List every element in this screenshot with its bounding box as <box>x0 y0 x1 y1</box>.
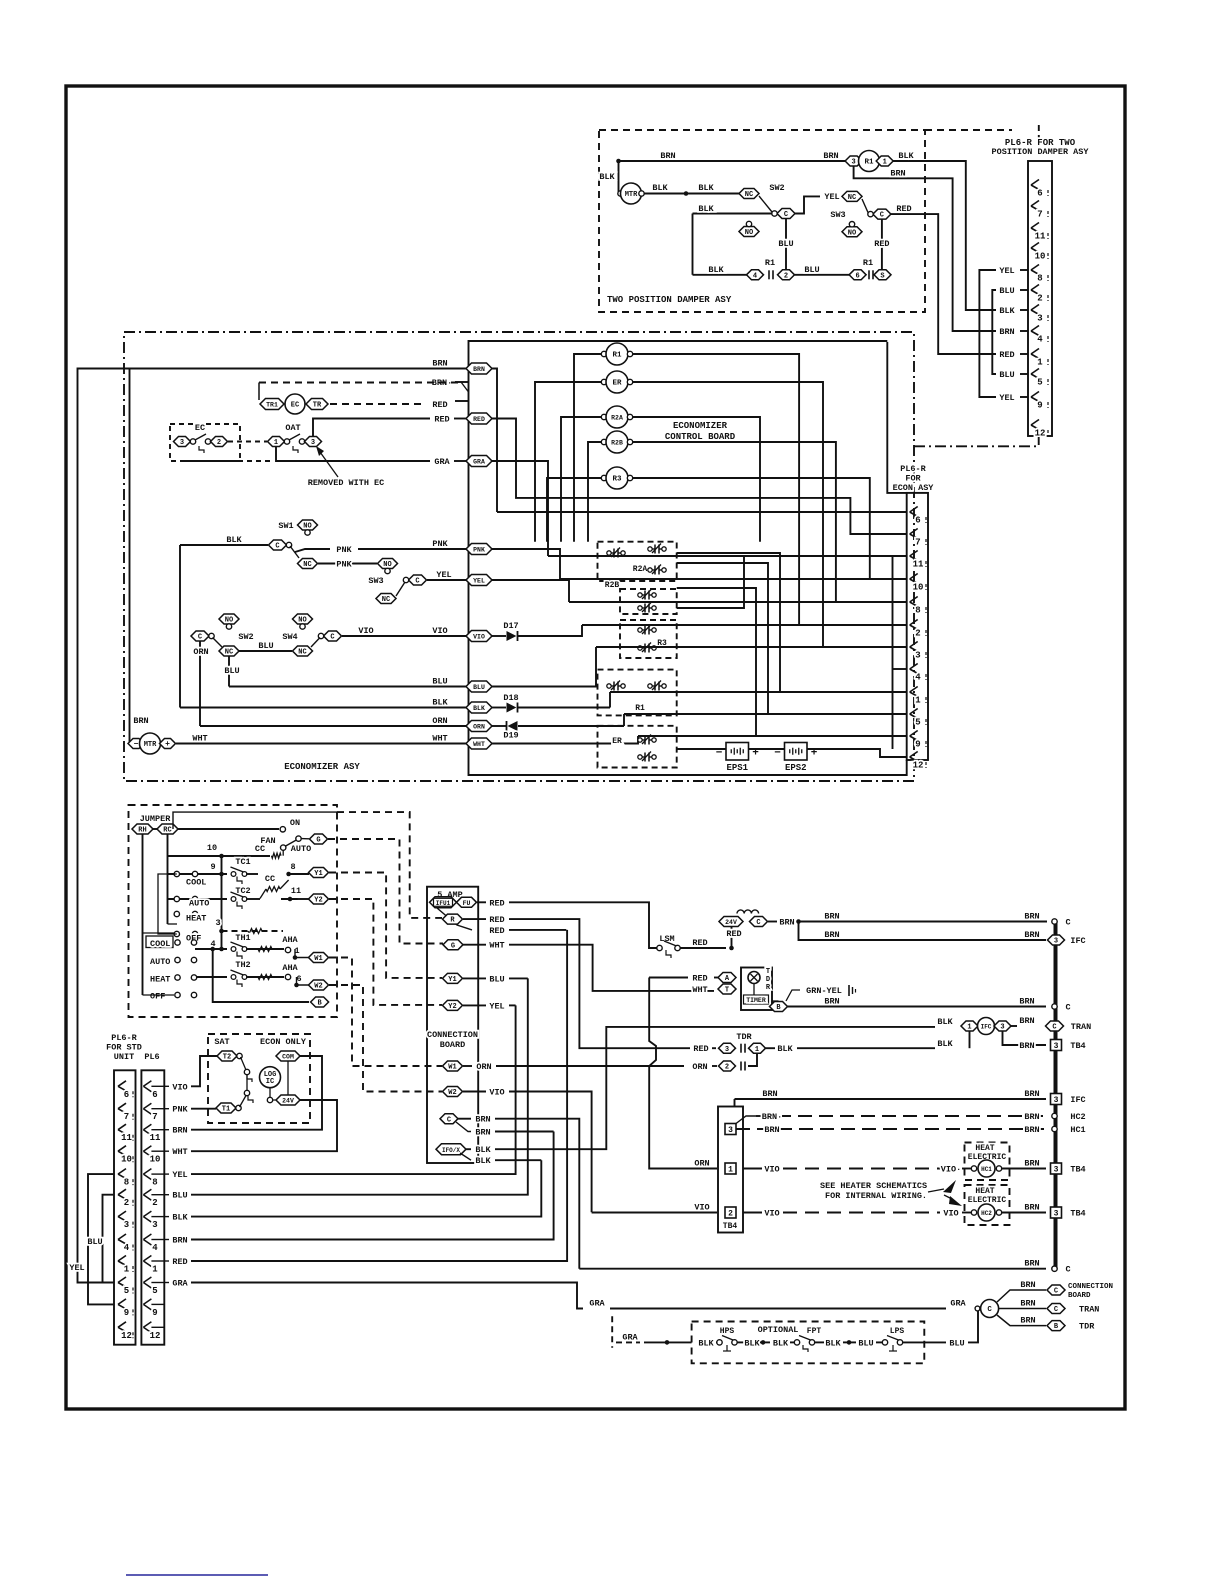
wire PNK SW1 to board <box>295 549 330 552</box>
wire YEL Y2 row <box>463 1004 486 1006</box>
wire RC to fan switch <box>178 828 279 830</box>
svg-text:+: + <box>165 740 170 749</box>
wire SW2 C to YEL <box>795 196 820 213</box>
svg-text:BLU: BLU <box>87 1237 102 1247</box>
svg-text:CONNECTION: CONNECTION <box>1068 1283 1113 1291</box>
svg-text:T1: T1 <box>222 1106 230 1114</box>
wire YEL loop damper pins 8-9 <box>979 270 996 397</box>
terminal VIO board edge <box>466 631 492 642</box>
svg-text:PNK: PNK <box>172 1105 188 1115</box>
terminal R connection board <box>443 914 463 925</box>
terminal ORN board edge <box>466 721 492 732</box>
svg-text:AUTO: AUTO <box>189 899 209 909</box>
svg-text:RED: RED <box>726 929 741 939</box>
svg-text:C: C <box>1052 1024 1056 1032</box>
node RED junction <box>729 946 734 951</box>
svg-text:12: 12 <box>1035 429 1046 439</box>
wire BRN TB4 from IFC3 <box>1003 1031 1047 1045</box>
svg-text:FOR: FOR <box>905 474 921 484</box>
svg-text:2: 2 <box>217 439 221 447</box>
wire BLK R1 to pin3 <box>893 161 996 310</box>
connector C circle <box>981 1300 999 1318</box>
wire B hex to node4 <box>213 949 309 1002</box>
terminal C bottom <box>1052 1266 1057 1271</box>
svg-text:8: 8 <box>915 606 920 616</box>
svg-text:CONNECTION: CONNECTION <box>427 1030 478 1040</box>
svg-text:IFC: IFC <box>981 1024 992 1031</box>
svg-text:REMOVED WITH EC: REMOVED WITH EC <box>308 478 385 488</box>
wire dashed W1 trunk <box>329 958 442 1067</box>
svg-text:NC: NC <box>303 561 311 569</box>
wire dash tick above connector <box>1038 125 1040 143</box>
svg-text:D17: D17 <box>503 621 518 631</box>
svg-text:Y2: Y2 <box>314 897 322 905</box>
terminal T1 <box>216 1103 236 1114</box>
wire ER coil left <box>535 382 601 542</box>
svg-text:NC: NC <box>298 649 306 657</box>
wire BRN B to C <box>788 1006 1047 1008</box>
wire R3 coil to right <box>633 478 870 579</box>
svg-text:C: C <box>987 1306 992 1314</box>
relay coil R2B <box>601 439 606 444</box>
pin 7 econ connector <box>910 529 918 539</box>
wire ORN W1 row to contact <box>463 1065 472 1067</box>
switch SW3 damper <box>842 191 862 202</box>
pin 5 PL6-R std <box>118 1277 126 1287</box>
svg-text:BLK: BLK <box>698 183 714 193</box>
wire BRN to connection board hex <box>997 1290 1046 1302</box>
fuse IFU1 <box>430 897 457 908</box>
wire board BLU to pin3 feeder <box>492 647 596 687</box>
wire feeder to econ pin row y736 <box>638 735 907 737</box>
svg-text:C: C <box>1054 1306 1058 1314</box>
pin 9 PL6 <box>143 1299 151 1310</box>
wire feeder to econ pin row y602 <box>569 601 907 603</box>
svg-text:BLK: BLK <box>825 1338 841 1348</box>
svg-text:T2: T2 <box>223 1054 231 1062</box>
svg-text:VIO: VIO <box>694 1203 709 1213</box>
wire fan arm <box>285 840 297 847</box>
svg-text:24V: 24V <box>725 919 737 926</box>
svg-text:10: 10 <box>913 583 924 593</box>
svg-text:IFU1: IFU1 <box>436 900 451 907</box>
pin 11 econ connector <box>910 551 918 561</box>
svg-text:D: D <box>766 976 770 984</box>
terminal FU <box>457 897 477 907</box>
node 11 <box>288 897 293 902</box>
svg-text:BLK: BLK <box>999 306 1015 316</box>
svg-text:C: C <box>1065 1003 1070 1013</box>
terminal HC2 <box>1052 1113 1057 1118</box>
svg-text:BRN: BRN <box>1020 1316 1035 1326</box>
svg-text:2: 2 <box>1037 294 1042 304</box>
svg-text:VIO: VIO <box>172 1082 187 1092</box>
svg-text:RED: RED <box>693 1044 708 1054</box>
svg-text:BLK: BLK <box>475 1156 491 1166</box>
svg-text:Y2: Y2 <box>448 1003 456 1011</box>
svg-text:NC: NC <box>382 596 390 604</box>
wire feeder pin4 stub <box>892 556 894 749</box>
svg-text:VIO: VIO <box>473 634 485 641</box>
terminal GRA board edge <box>466 456 492 467</box>
svg-text:VIO: VIO <box>358 626 373 636</box>
svg-text:10: 10 <box>150 1155 161 1165</box>
svg-text:6: 6 <box>915 516 920 526</box>
svg-text:C: C <box>1065 1265 1070 1275</box>
wire dashed TR to RED <box>330 403 425 405</box>
svg-text:BRN: BRN <box>762 1089 777 1099</box>
timer TDR <box>714 977 720 979</box>
wire stub pin 3 <box>1020 309 1028 311</box>
wire ORN SW2 down <box>199 641 201 726</box>
pin 5 PL6 <box>143 1277 151 1288</box>
wire R2A coil right <box>633 417 760 542</box>
svg-text:SW1: SW1 <box>278 521 293 531</box>
svg-text:PNK: PNK <box>336 545 352 555</box>
wire board BRN to pin6 feeder <box>492 369 497 513</box>
svg-text:1: 1 <box>915 696 921 706</box>
svg-text:SW4: SW4 <box>282 632 297 642</box>
svg-text:C: C <box>784 211 788 219</box>
svg-text:R3: R3 <box>612 476 622 484</box>
svg-text:TWO POSITION DAMPER ASY: TWO POSITION DAMPER ASY <box>607 295 732 305</box>
svg-text:BRN: BRN <box>1020 1280 1035 1290</box>
svg-text:ECONOMIZER: ECONOMIZER <box>673 421 728 431</box>
pin 3 econ connector <box>910 642 918 652</box>
wire board PNK to pin10 feeder <box>492 549 560 579</box>
pin 7 damper connector <box>1031 201 1039 211</box>
pin 12 econ connector <box>910 752 918 762</box>
connection board outline <box>427 887 478 1163</box>
pin 8 econ connector <box>910 597 918 607</box>
svg-text:BRN: BRN <box>1024 912 1039 922</box>
wire SW2 arm <box>759 196 772 212</box>
svg-text:BLU: BLU <box>473 684 485 691</box>
wire BLU up to C circle <box>968 1311 978 1342</box>
svg-text:12: 12 <box>121 1331 132 1341</box>
pin 9 damper connector <box>1031 392 1039 402</box>
svg-text:WHT: WHT <box>172 1147 187 1157</box>
wire feeder to econ pin row y579 <box>560 578 907 580</box>
wire VIO SW4 to board <box>342 635 466 637</box>
svg-text:BRN: BRN <box>1024 930 1039 940</box>
pin 1 damper connector <box>1031 349 1039 359</box>
svg-text:AUTO: AUTO <box>150 957 170 967</box>
svg-text:BRN: BRN <box>1024 1203 1039 1213</box>
pin 6 econ connector <box>910 507 918 517</box>
wire BRN HC1 dashed row <box>736 1128 1046 1130</box>
wire board top to connector <box>887 342 906 493</box>
wire R1 coil left <box>574 354 601 542</box>
svg-text:TR: TR <box>313 402 322 410</box>
svg-text:RED: RED <box>999 350 1014 360</box>
svg-text:R1: R1 <box>635 704 645 713</box>
terminal RED board edge <box>466 413 492 424</box>
svg-text:6: 6 <box>1037 189 1042 199</box>
wire BLK IFO row1 <box>466 1148 471 1150</box>
svg-text:BRN: BRN <box>1024 1125 1039 1135</box>
svg-text:NC: NC <box>745 191 753 199</box>
svg-text:RC: RC <box>163 827 171 835</box>
svg-text:6: 6 <box>855 272 859 280</box>
svg-text:9: 9 <box>124 1308 129 1318</box>
svg-text:PNK: PNK <box>432 539 448 549</box>
svg-text:BRN: BRN <box>1019 997 1034 1007</box>
sat econ only enclosure <box>208 1034 310 1123</box>
terminal W1 thermostat <box>309 953 329 964</box>
pin 4 econ connector <box>910 664 918 674</box>
svg-text:TH1: TH1 <box>235 933 250 943</box>
terminal G connection board <box>443 940 463 951</box>
svg-text:RED: RED <box>434 415 449 425</box>
wire RED stub <box>455 400 469 402</box>
svg-text:11: 11 <box>150 1133 161 1143</box>
svg-text:PL6-R: PL6-R <box>111 1033 137 1043</box>
svg-text:COM: COM <box>282 1054 294 1061</box>
svg-text:3: 3 <box>915 651 920 661</box>
svg-text:TDR: TDR <box>736 1032 752 1042</box>
terminal C connection board <box>440 1114 458 1125</box>
svg-text:BLK: BLK <box>652 183 668 193</box>
wire ORN VIO HC1 row <box>743 1168 762 1170</box>
wire bus row 10 <box>168 855 271 857</box>
node 6 <box>294 983 299 988</box>
svg-text:BRN: BRN <box>1019 1041 1034 1051</box>
wire COM to LOG <box>287 1061 289 1095</box>
wire BRN to TDR hex <box>997 1315 1046 1326</box>
svg-text:1: 1 <box>124 1265 130 1275</box>
svg-text:BRN: BRN <box>172 1126 187 1136</box>
svg-text:YEL: YEL <box>473 578 485 585</box>
terminal Y1 connection board <box>443 973 463 984</box>
terminal RH <box>132 824 153 835</box>
svg-text:G: G <box>451 942 455 950</box>
terminal 24V sat <box>276 1095 300 1105</box>
pin 10 econ connector <box>910 574 918 584</box>
svg-text:HC2: HC2 <box>1070 1112 1085 1122</box>
svg-text:11: 11 <box>913 560 924 570</box>
relay contacts R1 box <box>598 670 677 716</box>
svg-text:IFC: IFC <box>1070 936 1085 946</box>
wire ORN row to board <box>200 725 468 727</box>
node 3 row anticipator <box>219 929 224 934</box>
wire dashed TR box top <box>259 382 462 384</box>
pin 6 PL6-R std <box>118 1081 126 1091</box>
terminal WHT board edge <box>466 738 492 749</box>
wire contact box to pin1 <box>677 553 780 692</box>
svg-text:BRN: BRN <box>1020 1299 1035 1309</box>
svg-text:4: 4 <box>124 1243 130 1253</box>
thermostat jumper enclosure <box>129 805 338 1017</box>
wire MTR to NC <box>644 193 739 195</box>
svg-text:VIO: VIO <box>432 626 447 636</box>
svg-text:BLU: BLU <box>999 370 1014 380</box>
svg-text:R1: R1 <box>612 352 622 360</box>
svg-text:4: 4 <box>915 673 921 683</box>
svg-text:YEL: YEL <box>999 393 1014 403</box>
svg-text:10: 10 <box>207 843 217 853</box>
wire BRN- diagonal <box>461 382 469 392</box>
wire feeder to econ pin row y512 <box>497 511 907 513</box>
svg-text:OAT: OAT <box>285 423 300 433</box>
wire BLK row to board <box>180 707 468 709</box>
svg-text:RED: RED <box>692 974 707 984</box>
terminal HC1 <box>1052 1126 1057 1131</box>
economizer control board outline <box>469 341 907 775</box>
terminal Y2 connection board <box>443 1000 463 1011</box>
svg-text:BRN: BRN <box>475 1115 490 1125</box>
wire BLK vertical to IFC1 <box>969 1031 971 1048</box>
svg-text:GRN-YEL: GRN-YEL <box>806 986 842 996</box>
svg-text:TDR: TDR <box>1079 1322 1095 1332</box>
svg-text:EPS1: EPS1 <box>726 763 748 773</box>
svg-text:R1: R1 <box>863 258 873 268</box>
svg-text:1: 1 <box>274 439 278 447</box>
svg-text:WHT: WHT <box>489 941 504 951</box>
svg-text:ECONOMIZER ASY: ECONOMIZER ASY <box>284 762 360 772</box>
svg-text:11: 11 <box>1035 232 1046 242</box>
svg-text:TC1: TC1 <box>235 857 250 867</box>
wire BLU loop damper pins 2-5 <box>992 290 996 374</box>
terminal PNK board edge <box>466 544 492 555</box>
svg-text:WHT: WHT <box>692 985 707 995</box>
relay contacts R2A box <box>598 542 677 581</box>
pin 1 PL6-R std <box>118 1256 126 1266</box>
svg-text:BRN: BRN <box>1024 1159 1039 1169</box>
wire WHT to 24V <box>191 1100 337 1151</box>
svg-text:6: 6 <box>296 974 301 984</box>
svg-text:EPS2: EPS2 <box>785 763 807 773</box>
svg-text:ORN: ORN <box>193 647 208 657</box>
svg-text:PNK: PNK <box>473 547 485 554</box>
wire ORN net vertical with jogs <box>649 978 717 1169</box>
svg-text:WHT: WHT <box>432 734 447 744</box>
svg-text:GRA: GRA <box>434 457 450 467</box>
wire BLK to SW1 <box>180 544 268 546</box>
pin 12 PL6-R std <box>118 1322 126 1332</box>
svg-text:2: 2 <box>152 1198 157 1208</box>
pin 11 damper connector <box>1031 223 1039 233</box>
svg-text:BLK: BLK <box>773 1338 789 1348</box>
wire BRN motor branch <box>129 369 131 744</box>
terminal Y1 thermostat <box>309 868 329 879</box>
motor MTR economizer <box>128 739 144 750</box>
svg-text:GRA: GRA <box>622 1332 638 1342</box>
svg-text:C: C <box>275 543 279 551</box>
svg-text:TRAN: TRAN <box>1071 1022 1091 1032</box>
svg-text:HPS: HPS <box>720 1327 735 1336</box>
svg-text:VIO: VIO <box>764 1165 779 1175</box>
svg-text:ORN: ORN <box>692 1062 707 1072</box>
svg-text:BLU: BLU <box>858 1338 873 1348</box>
svg-text:2: 2 <box>725 1064 729 1072</box>
svg-text:VIO: VIO <box>489 1088 504 1098</box>
svg-text:G: G <box>316 837 320 845</box>
pin 8 damper connector <box>1031 265 1039 275</box>
svg-text:OPTIONAL: OPTIONAL <box>758 1325 799 1335</box>
svg-text:C: C <box>415 578 419 586</box>
svg-text:12: 12 <box>150 1331 161 1341</box>
svg-text:TRAN: TRAN <box>1079 1305 1099 1315</box>
terminal BLU board edge <box>466 681 492 692</box>
svg-text:TB4: TB4 <box>1070 1165 1085 1175</box>
pin 11 PL6 <box>143 1124 151 1135</box>
svg-text:NC: NC <box>225 649 233 657</box>
svg-text:AHA: AHA <box>282 963 298 973</box>
svg-text:D18: D18 <box>503 693 518 703</box>
svg-text:MTR: MTR <box>144 741 157 749</box>
svg-text:9: 9 <box>210 862 215 872</box>
svg-text:R2B: R2B <box>611 440 623 447</box>
wire stub pin 5 <box>1020 373 1028 375</box>
svg-text:S: S <box>880 272 884 280</box>
transformer 24V C <box>719 917 743 927</box>
wire stub row 924 <box>168 923 178 925</box>
svg-text:PNK: PNK <box>336 560 352 570</box>
wire feeder to econ pin row y647 <box>596 646 907 648</box>
svg-text:FPT: FPT <box>807 1327 822 1336</box>
svg-text:T: T <box>725 987 729 995</box>
svg-text:HEAT: HEAT <box>975 1144 994 1153</box>
battery EPS2 <box>785 743 808 761</box>
wire R2B coil left <box>588 442 601 542</box>
wire BLU SW2 to hex2 <box>785 219 787 270</box>
wire board YEL to pin8 feeder <box>492 580 569 602</box>
svg-text:BOARD: BOARD <box>440 1040 466 1050</box>
svg-text:BLK: BLK <box>698 204 714 214</box>
svg-text:24V: 24V <box>282 1098 294 1105</box>
terminal C mid <box>1052 1004 1057 1009</box>
wire EC to OAT dashed <box>228 441 267 443</box>
svg-text:8: 8 <box>124 1178 129 1188</box>
svg-text:3: 3 <box>725 1046 729 1054</box>
svg-text:ORN: ORN <box>473 724 485 731</box>
svg-text:ORN: ORN <box>432 716 447 726</box>
pin 6 damper connector <box>1031 180 1039 190</box>
wire feeder to econ pin row y625 <box>582 624 907 626</box>
wire BRN branch to IFC <box>799 922 1047 941</box>
svg-text:5: 5 <box>1037 378 1042 388</box>
svg-text:PL6: PL6 <box>144 1052 159 1062</box>
svg-text:9: 9 <box>1037 401 1042 411</box>
svg-text:BLK: BLK <box>432 698 448 708</box>
svg-text:JUMPER: JUMPER <box>140 814 172 824</box>
svg-text:W1: W1 <box>448 1064 456 1072</box>
svg-text:SW2: SW2 <box>238 632 253 642</box>
economizer asy enclosure dash-dot <box>124 332 914 781</box>
svg-text:4: 4 <box>1037 335 1043 345</box>
wire YEL SW3 to board <box>427 579 466 581</box>
svg-text:BRN: BRN <box>764 1125 779 1135</box>
pin 2 PL6-R std <box>118 1189 126 1199</box>
wire SW2 arm BLK <box>693 213 772 215</box>
terminal B thermostat <box>311 997 329 1008</box>
wire contact box to pin5 <box>677 563 768 714</box>
wire R2A coil left <box>561 417 601 542</box>
wire stub pin 9 <box>1020 396 1028 398</box>
svg-text:TB4: TB4 <box>1070 1041 1085 1051</box>
selector upper circles <box>174 871 179 876</box>
svg-text:EC: EC <box>291 402 299 410</box>
wire contact box to pin11 <box>677 556 744 608</box>
pin 2 damper connector <box>1031 285 1039 295</box>
pin 1 econ connector <box>910 687 918 697</box>
svg-text:BLU: BLU <box>258 641 273 651</box>
svg-text:HC1: HC1 <box>981 1166 992 1173</box>
wire EPS1 to EPS2 <box>749 748 785 750</box>
terminal BLK board edge <box>466 702 492 713</box>
wire BLU row to board <box>229 686 468 688</box>
